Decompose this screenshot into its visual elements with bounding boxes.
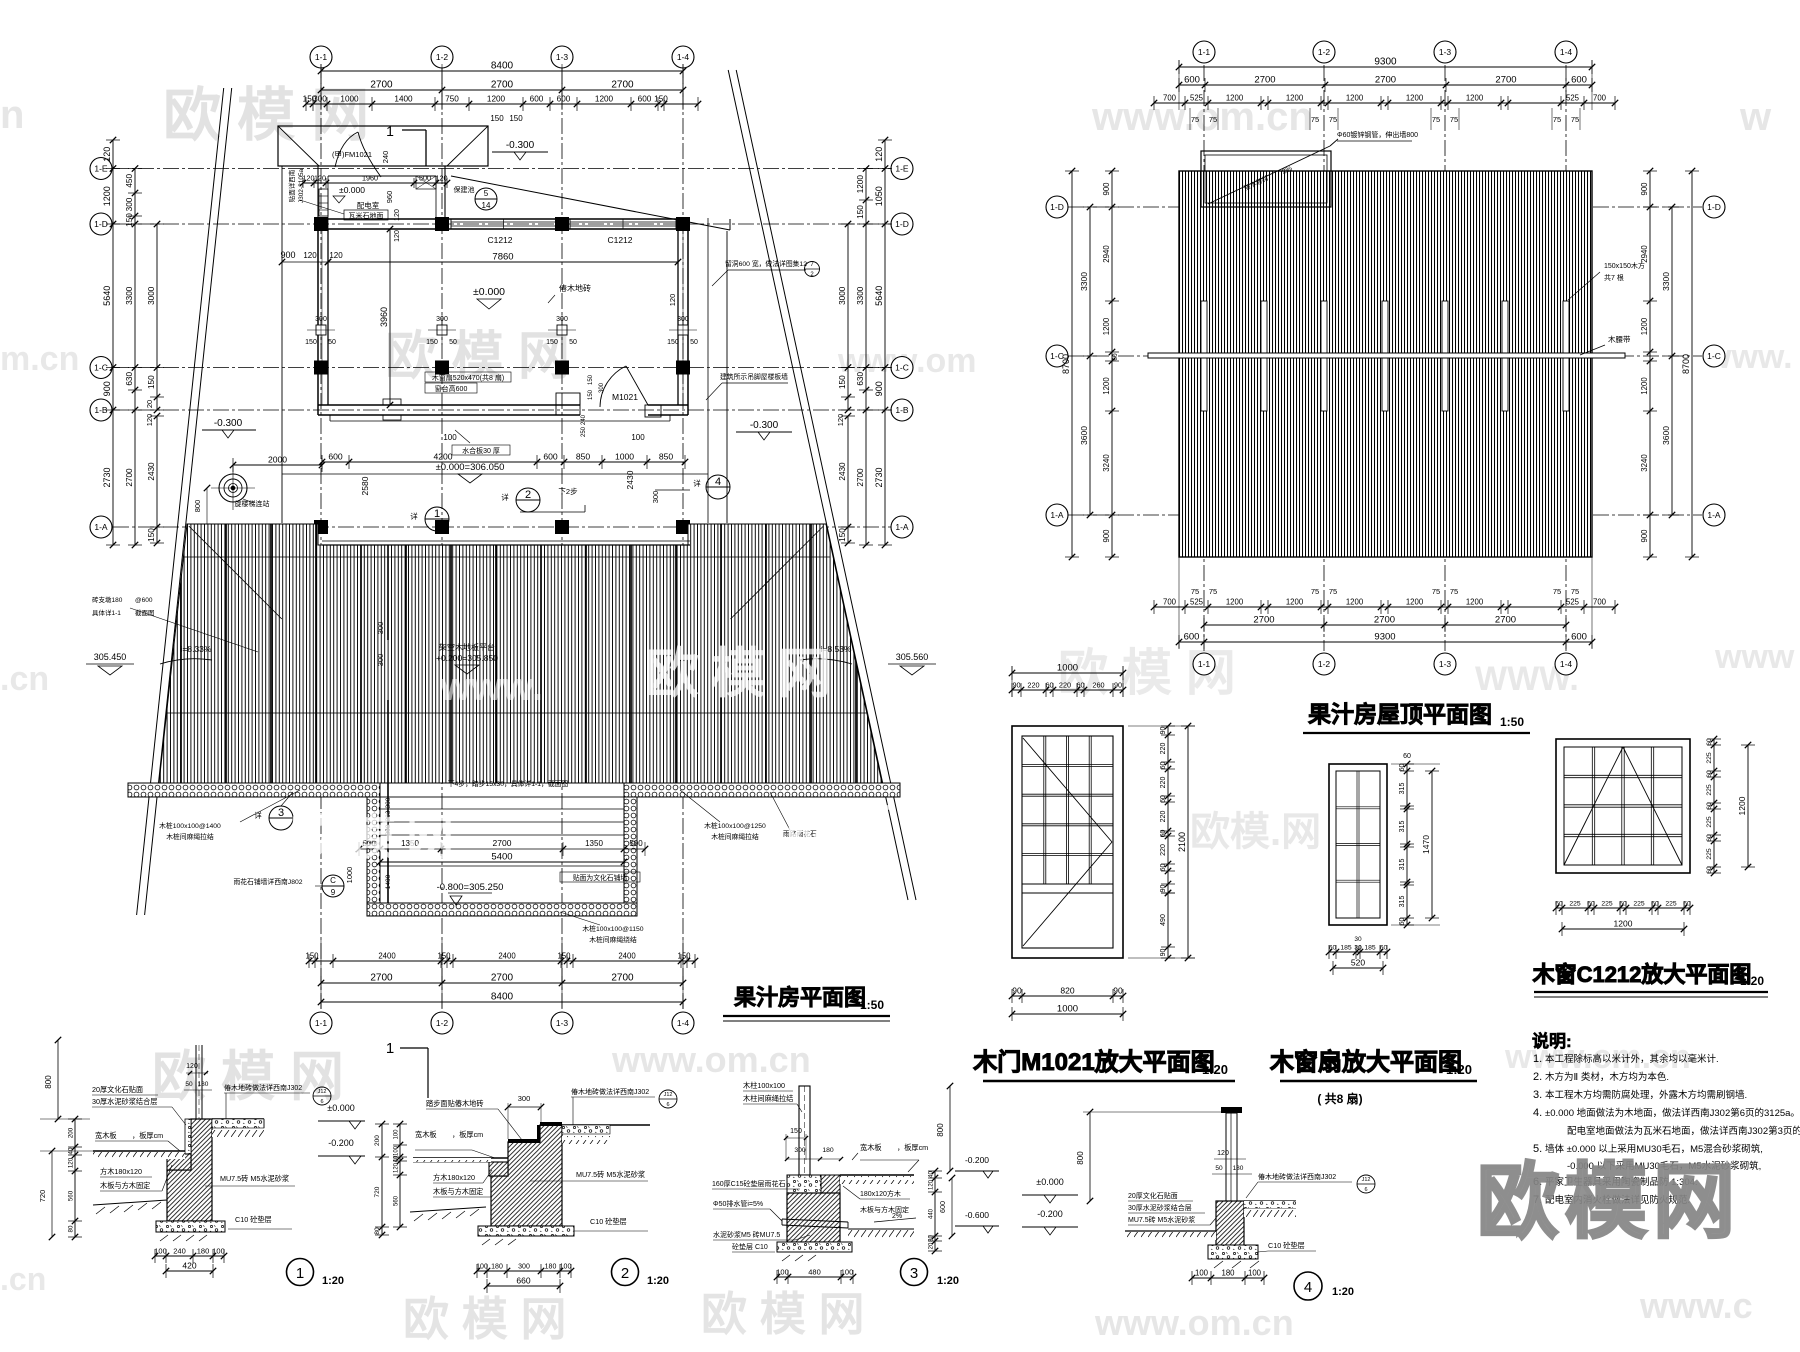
- svg-text:偆木地砖: 偆木地砖: [559, 283, 591, 293]
- svg-text:木柱间麻绳拉结: 木柱间麻绳拉结: [743, 1094, 793, 1103]
- svg-text:75: 75: [1329, 587, 1337, 596]
- svg-text:1000: 1000: [1057, 1004, 1078, 1015]
- svg-text:木窗扇放大平面图: 木窗扇放大平面图: [1269, 1048, 1462, 1076]
- svg-text:1200: 1200: [1466, 94, 1484, 103]
- svg-text:120: 120: [394, 1162, 400, 1173]
- svg-text:木腰带: 木腰带: [1608, 334, 1631, 344]
- svg-text:60: 60: [1160, 762, 1167, 770]
- svg-text:60: 60: [1403, 753, 1411, 760]
- svg-text:50: 50: [690, 339, 698, 346]
- svg-text:偆木地砖做法详西南J302: 偆木地砖做法详西南J302: [224, 1083, 302, 1092]
- svg-text:-0.200: -0.200: [1037, 1209, 1063, 1219]
- svg-text:木桩100x100@1400: 木桩100x100@1400: [159, 821, 221, 830]
- svg-text:1400: 1400: [385, 874, 392, 889]
- svg-text:440: 440: [929, 1208, 935, 1219]
- svg-text:500: 500: [629, 839, 643, 848]
- svg-text:1000: 1000: [615, 452, 634, 462]
- svg-text:1:20: 1:20: [1446, 1062, 1472, 1077]
- svg-text:1-1: 1-1: [315, 52, 328, 62]
- svg-text:详: 详: [410, 511, 418, 521]
- svg-text:2700: 2700: [611, 973, 634, 984]
- svg-text:300: 300: [599, 382, 605, 393]
- svg-text:600: 600: [543, 452, 558, 462]
- svg-text:150: 150: [838, 528, 847, 542]
- svg-text:525: 525: [1566, 598, 1580, 607]
- svg-text:120: 120: [1217, 1150, 1229, 1157]
- svg-text:14: 14: [482, 201, 491, 210]
- svg-text:9: 9: [331, 888, 336, 897]
- svg-text:1:20: 1:20: [647, 1275, 669, 1287]
- svg-text:720: 720: [38, 1190, 47, 1203]
- svg-text:2100: 2100: [1177, 832, 1187, 852]
- svg-text:150: 150: [856, 205, 865, 219]
- svg-text:100: 100: [394, 1145, 400, 1156]
- svg-text:木桩间麻绳拉结: 木桩间麻绳拉结: [711, 832, 759, 841]
- svg-text:150: 150: [305, 952, 319, 961]
- svg-text:7860: 7860: [492, 252, 513, 263]
- svg-text:www.: www.: [439, 665, 543, 709]
- svg-text:75: 75: [1553, 115, 1561, 124]
- svg-text:1-E: 1-E: [94, 164, 108, 174]
- svg-text:砖支墩180: 砖支墩180: [92, 595, 123, 604]
- svg-text:2430: 2430: [147, 462, 156, 481]
- svg-text:1.: 1.: [1533, 1053, 1542, 1065]
- svg-text:果汁房屋顶平面图: 果汁房屋顶平面图: [1308, 701, 1492, 727]
- svg-text:60: 60: [1706, 802, 1713, 810]
- svg-text:100: 100: [560, 1264, 572, 1271]
- svg-text:120: 120: [102, 147, 112, 162]
- svg-text:n: n: [0, 93, 24, 137]
- svg-text:4200: 4200: [433, 452, 452, 462]
- svg-text:-0.300: -0.300: [214, 418, 243, 429]
- svg-text:60: 60: [1399, 764, 1406, 772]
- svg-text:480: 480: [808, 1268, 821, 1277]
- svg-text:1-E: 1-E: [895, 164, 909, 174]
- svg-text:木窗C1212放大平面图: 木窗C1212放大平面图: [1532, 962, 1752, 987]
- svg-text:3600: 3600: [1661, 426, 1671, 445]
- svg-text:欧 模 网: 欧 模 网: [152, 1047, 344, 1107]
- svg-text:本工程除标高以米计外，其余均以毫米计.: 本工程除标高以米计外，其余均以毫米计.: [1545, 1053, 1719, 1065]
- svg-text:525: 525: [1190, 598, 1204, 607]
- svg-text:520: 520: [1351, 958, 1365, 968]
- svg-text:60: 60: [1380, 945, 1388, 952]
- svg-text:1200: 1200: [1406, 94, 1424, 103]
- svg-text:150: 150: [509, 114, 523, 123]
- svg-text:180: 180: [1221, 1269, 1235, 1278]
- svg-text:90: 90: [1012, 986, 1022, 996]
- svg-text:420: 420: [182, 1261, 196, 1271]
- svg-text:900: 900: [1102, 529, 1111, 543]
- svg-text:150: 150: [588, 374, 594, 385]
- svg-text:-0.800=305.250: -0.800=305.250: [437, 882, 504, 893]
- svg-text:±0.000: ±0.000: [339, 185, 365, 195]
- svg-text:225: 225: [1706, 784, 1713, 796]
- svg-text:1200: 1200: [1614, 919, 1633, 929]
- svg-text:1-3: 1-3: [1439, 659, 1452, 669]
- svg-text:1: 1: [386, 1040, 394, 1057]
- svg-text:欧模网: 欧模网: [1477, 1157, 1741, 1248]
- svg-text:水泥砂浆M5 砖MU7.5: 水泥砂浆M5 砖MU7.5: [713, 1230, 780, 1239]
- svg-text:800: 800: [193, 500, 202, 513]
- svg-text:120: 120: [836, 414, 845, 427]
- svg-text:120: 120: [303, 251, 317, 260]
- svg-text:20厚文化石贴面: 20厚文化石贴面: [92, 1085, 143, 1094]
- svg-text:525: 525: [1190, 94, 1204, 103]
- svg-text:1:20: 1:20: [322, 1275, 344, 1287]
- svg-text:600: 600: [1571, 75, 1587, 86]
- svg-text:3000: 3000: [838, 286, 847, 305]
- svg-text:M1021: M1021: [612, 392, 638, 402]
- svg-text:200: 200: [68, 1127, 75, 1138]
- svg-text:60: 60: [1706, 738, 1713, 746]
- svg-text:3240: 3240: [1102, 454, 1111, 472]
- svg-text:4: 4: [715, 476, 721, 488]
- svg-text:贴面为文化石铺墙: 贴面为文化石铺墙: [573, 873, 628, 882]
- svg-text:1-D: 1-D: [1050, 202, 1064, 212]
- svg-text:.cn: .cn: [0, 1261, 46, 1297]
- svg-text:30: 30: [1354, 936, 1362, 943]
- svg-text:1:20: 1:20: [937, 1275, 959, 1287]
- svg-text:150: 150: [437, 952, 451, 961]
- svg-text:2700: 2700: [1375, 75, 1396, 86]
- svg-text:720: 720: [374, 1186, 381, 1197]
- svg-text:3240: 3240: [1640, 454, 1649, 472]
- svg-text:630: 630: [856, 372, 865, 386]
- svg-text:600: 600: [328, 452, 343, 462]
- svg-text:J12: J12: [664, 1092, 673, 1098]
- svg-text:120: 120: [314, 174, 326, 183]
- svg-text:180: 180: [545, 1264, 557, 1271]
- svg-text:800: 800: [44, 1075, 53, 1089]
- svg-text:本工程木方均需防腐处理，外露木方均需刷钢墙.: 本工程木方均需防腐处理，外露木方均需刷钢墙.: [1545, 1089, 1747, 1101]
- svg-text:220: 220: [1160, 811, 1167, 823]
- svg-text:架空木地板平台: 架空木地板平台: [439, 642, 495, 652]
- svg-text:2000: 2000: [268, 455, 287, 465]
- svg-text:-0.300: -0.300: [750, 420, 779, 431]
- svg-text:2%: 2%: [892, 1213, 902, 1220]
- svg-text:C10 砼垫层: C10 砼垫层: [590, 1217, 627, 1226]
- svg-text:150: 150: [546, 339, 558, 346]
- svg-text:下2步: 下2步: [558, 487, 578, 496]
- svg-text:225: 225: [1601, 901, 1613, 908]
- svg-text:250: 250: [581, 426, 587, 437]
- svg-text:180x120方木: 180x120方木: [860, 1189, 901, 1198]
- svg-text:±0.000: ±0.000: [1036, 1177, 1063, 1187]
- svg-text:100: 100: [476, 1264, 488, 1271]
- svg-text:100: 100: [154, 1247, 167, 1256]
- svg-text:木桩100x100@1150: 木桩100x100@1150: [582, 924, 643, 933]
- svg-text:1-1: 1-1: [1198, 659, 1211, 669]
- svg-text:1200: 1200: [595, 95, 614, 104]
- svg-text:1200: 1200: [1102, 317, 1111, 335]
- svg-text:水合板30 厚: 水合板30 厚: [462, 446, 500, 455]
- svg-text:120: 120: [874, 147, 884, 162]
- svg-text:120: 120: [186, 1063, 198, 1070]
- svg-text:2400: 2400: [498, 952, 516, 961]
- svg-text:www: www: [1714, 638, 1795, 676]
- svg-text:2700: 2700: [1495, 75, 1516, 86]
- svg-text:3300: 3300: [856, 286, 865, 305]
- svg-text:2700: 2700: [370, 80, 393, 91]
- svg-text:20厚文化石贴面: 20厚文化石贴面: [1128, 1191, 1178, 1200]
- svg-text:±0.000: ±0.000: [473, 286, 505, 298]
- svg-text:宽木板: 宽木板: [95, 1131, 117, 1140]
- svg-text:150: 150: [838, 375, 847, 389]
- svg-text:具体详1-1: 具体详1-1: [92, 608, 121, 617]
- svg-text:240: 240: [381, 151, 390, 164]
- svg-text:315: 315: [1399, 896, 1406, 908]
- svg-text:1-C: 1-C: [1707, 351, 1721, 361]
- svg-text:2700: 2700: [370, 973, 393, 984]
- svg-text:150: 150: [588, 389, 594, 400]
- svg-text:C10 砼垫层: C10 砼垫层: [1268, 1241, 1305, 1250]
- svg-text:75: 75: [1311, 115, 1319, 124]
- svg-text:185: 185: [1364, 945, 1376, 952]
- svg-text:方木180x120: 方木180x120: [100, 1167, 142, 1176]
- svg-text:1000: 1000: [1057, 663, 1078, 674]
- svg-text:50: 50: [185, 1081, 193, 1088]
- svg-text:1000: 1000: [340, 95, 359, 104]
- svg-text:1200: 1200: [856, 175, 865, 194]
- svg-text:50: 50: [569, 339, 577, 346]
- svg-text:75: 75: [1571, 587, 1579, 596]
- svg-text:800: 800: [936, 1123, 945, 1137]
- svg-text:200: 200: [374, 1135, 381, 1146]
- svg-text:3.: 3.: [1533, 1089, 1542, 1101]
- svg-text:560: 560: [394, 1195, 400, 1206]
- svg-text:240: 240: [581, 414, 587, 425]
- svg-text:150: 150: [426, 339, 438, 346]
- svg-text:i=8.33%: i=8.33%: [181, 644, 212, 654]
- svg-text:150: 150: [147, 375, 156, 389]
- svg-text:60: 60: [1706, 866, 1713, 874]
- svg-text:2700: 2700: [1253, 615, 1274, 626]
- svg-text:墙体 ±0.000 以上采用MU30毛石，M5混合砂浆砌筑,: 墙体 ±0.000 以上采用MU30毛石，M5混合砂浆砌筑,: [1545, 1143, 1763, 1155]
- svg-text:+0.200=305.850: +0.200=305.850: [436, 653, 498, 663]
- svg-text:850: 850: [659, 452, 674, 462]
- svg-text:2400: 2400: [618, 952, 636, 961]
- svg-text:1200: 1200: [1226, 94, 1244, 103]
- svg-text:1: 1: [386, 123, 394, 139]
- svg-text:225: 225: [1633, 901, 1645, 908]
- svg-text:3000: 3000: [147, 286, 156, 305]
- svg-text:木桩间麻绳绕结: 木桩间麻绳绕结: [589, 935, 637, 944]
- svg-text:75: 75: [1311, 587, 1319, 596]
- svg-text:1200: 1200: [1640, 317, 1649, 335]
- svg-text:100: 100: [1195, 1269, 1209, 1278]
- svg-text:960: 960: [385, 191, 394, 204]
- svg-text:50: 50: [1215, 1165, 1223, 1172]
- svg-text:220: 220: [1160, 743, 1167, 755]
- svg-text:Φ60镀锌钢管，伸出墙800: Φ60镀锌钢管，伸出墙800: [1337, 130, 1418, 139]
- svg-text:欧模.网: 欧模.网: [1190, 810, 1321, 854]
- svg-text:30: 30: [1354, 945, 1362, 952]
- svg-text:1-2: 1-2: [1318, 659, 1331, 669]
- svg-text:50: 50: [449, 339, 457, 346]
- svg-text:下4步，踏步15x30，具体详1-1，截面图: 下4步，踏步15x30，具体详1-1，截面图: [448, 779, 569, 788]
- svg-text:80: 80: [68, 1225, 75, 1232]
- svg-text:120: 120: [929, 1179, 935, 1190]
- svg-text:1200: 1200: [1102, 377, 1111, 395]
- svg-text:共7 根: 共7 根: [1604, 273, 1624, 282]
- svg-text:30厚水泥砂浆结合层: 30厚水泥砂浆结合层: [1128, 1203, 1192, 1212]
- svg-text:600: 600: [1184, 75, 1200, 86]
- svg-text:，板厚cm: ，板厚cm: [132, 1131, 163, 1140]
- svg-text:1:50: 1:50: [860, 998, 884, 1012]
- svg-text:900: 900: [1102, 182, 1111, 196]
- svg-text:20: 20: [929, 1242, 935, 1249]
- svg-text:300: 300: [313, 95, 327, 104]
- svg-text:www.om.cn: www.om.cn: [1094, 1302, 1294, 1343]
- svg-text:1-3: 1-3: [556, 52, 569, 62]
- svg-text:1:50: 1:50: [1500, 715, 1524, 729]
- svg-text:欧 模 网: 欧 模 网: [403, 1293, 567, 1345]
- svg-text:( 共8 扇): ( 共8 扇): [1317, 1091, 1362, 1106]
- svg-text:120: 120: [436, 174, 448, 183]
- svg-text:60: 60: [1651, 901, 1659, 908]
- svg-text:2700: 2700: [491, 80, 514, 91]
- svg-text:600: 600: [557, 95, 571, 104]
- svg-text:.cn: .cn: [0, 660, 49, 698]
- svg-text:8700: 8700: [1681, 354, 1691, 374]
- svg-text:2: 2: [621, 1265, 629, 1282]
- svg-text:150: 150: [147, 528, 156, 542]
- svg-text:150: 150: [667, 339, 679, 346]
- svg-text:600: 600: [530, 95, 544, 104]
- svg-text:120: 120: [394, 230, 401, 242]
- svg-text:木桩100x100@1250: 木桩100x100@1250: [704, 821, 766, 830]
- svg-text:90: 90: [1160, 949, 1167, 957]
- svg-text:1-2: 1-2: [1318, 47, 1331, 57]
- svg-text:留洞600 宽，做法详图集12: 留洞600 宽，做法详图集12: [725, 259, 807, 268]
- svg-text:150: 150: [677, 952, 691, 961]
- svg-text:225: 225: [1665, 901, 1677, 908]
- svg-text:6: 6: [666, 1102, 669, 1108]
- svg-text:宽木板: 宽木板: [415, 1130, 437, 1139]
- svg-text:60: 60: [1160, 795, 1167, 803]
- svg-text:75: 75: [1191, 587, 1199, 596]
- svg-text:1:20: 1:20: [1202, 1062, 1228, 1077]
- svg-text:4: 4: [1304, 1279, 1312, 1296]
- svg-text:5640: 5640: [874, 286, 884, 306]
- svg-text:100: 100: [1248, 1269, 1262, 1278]
- svg-text:3960: 3960: [379, 307, 389, 327]
- svg-text:700: 700: [1593, 94, 1607, 103]
- svg-text:C1212: C1212: [487, 235, 512, 245]
- svg-text:1:20: 1:20: [1332, 1286, 1354, 1298]
- svg-text:±0.000: ±0.000: [327, 1103, 354, 1113]
- svg-text:180: 180: [198, 1081, 209, 1088]
- svg-text:详: 详: [501, 492, 509, 502]
- svg-text:1-1: 1-1: [315, 1018, 328, 1028]
- svg-text:40: 40: [68, 1147, 75, 1154]
- svg-text:Φ50排水管i=5%: Φ50排水管i=5%: [713, 1199, 763, 1208]
- svg-text:-0.600: -0.600: [965, 1210, 989, 1220]
- svg-text:1-4: 1-4: [1560, 47, 1573, 57]
- svg-text:90: 90: [1160, 727, 1167, 735]
- svg-text:1-A: 1-A: [1050, 510, 1064, 520]
- svg-text:5.: 5.: [1533, 1143, 1542, 1155]
- svg-text:60: 60: [1399, 918, 1406, 926]
- svg-text:180: 180: [1233, 1165, 1244, 1172]
- svg-text:偆木地砖做法详西南J302: 偆木地砖做法详西南J302: [571, 1087, 649, 1096]
- svg-text:1-1: 1-1: [1198, 47, 1211, 57]
- svg-text:1000: 1000: [345, 867, 354, 884]
- svg-text:240: 240: [173, 1247, 186, 1256]
- svg-text:3300: 3300: [1079, 272, 1089, 291]
- svg-text:窗台高600: 窗台高600: [435, 384, 468, 393]
- svg-text:J12: J12: [318, 1089, 327, 1095]
- svg-text:180: 180: [491, 1264, 503, 1271]
- svg-text:1-C: 1-C: [895, 363, 909, 373]
- svg-text:J12: J12: [1362, 1177, 1371, 1183]
- svg-text:6: 6: [320, 1099, 323, 1105]
- svg-text:100: 100: [443, 433, 457, 442]
- svg-text:1-B: 1-B: [94, 405, 108, 415]
- svg-text:700: 700: [1593, 598, 1607, 607]
- svg-text:2940: 2940: [1640, 245, 1649, 263]
- svg-text:1350: 1350: [585, 839, 603, 848]
- svg-text:900: 900: [1640, 182, 1649, 196]
- svg-text:详: 详: [693, 478, 701, 488]
- svg-text:300: 300: [518, 1264, 530, 1271]
- svg-text:2400: 2400: [378, 952, 396, 961]
- svg-text:300: 300: [385, 797, 392, 808]
- svg-text:1200: 1200: [1406, 598, 1424, 607]
- svg-text:1200: 1200: [1346, 94, 1364, 103]
- svg-text:20: 20: [145, 400, 154, 408]
- svg-text:1-4: 1-4: [677, 52, 690, 62]
- svg-text:560: 560: [68, 1190, 75, 1201]
- svg-text:600: 600: [1184, 632, 1200, 643]
- svg-text:8700: 8700: [1061, 354, 1071, 374]
- svg-text:185: 185: [1340, 945, 1352, 952]
- svg-text:木桩间麻绳拉结: 木桩间麻绳拉结: [166, 832, 214, 841]
- svg-text:315: 315: [1399, 859, 1406, 871]
- svg-text:900: 900: [1640, 529, 1649, 543]
- svg-text:120: 120: [668, 294, 677, 307]
- svg-text:1-B: 1-B: [895, 405, 909, 415]
- svg-text:490: 490: [1160, 914, 1167, 926]
- svg-text:2700: 2700: [611, 80, 634, 91]
- svg-text:150: 150: [125, 213, 134, 227]
- svg-text:75: 75: [1432, 587, 1440, 596]
- svg-text:木方为Ⅱ 类材，木方均为本色.: 木方为Ⅱ 类材，木方均为本色.: [1545, 1071, 1669, 1083]
- svg-text:500: 500: [419, 174, 431, 183]
- svg-text:700: 700: [1163, 598, 1177, 607]
- svg-text:旋楼梯连站: 旋楼梯连站: [235, 499, 270, 508]
- svg-text:踏步面贴偆木地砖: 踏步面贴偆木地砖: [426, 1099, 484, 1108]
- svg-text:，板厚cm: ，板厚cm: [897, 1143, 928, 1152]
- svg-text:1470: 1470: [1421, 835, 1431, 854]
- svg-text:贴面详西南: 贴面详西南: [287, 169, 296, 202]
- svg-text:150: 150: [557, 952, 571, 961]
- svg-text:150: 150: [790, 1128, 802, 1135]
- svg-text:1-A: 1-A: [94, 522, 108, 532]
- svg-text:1400: 1400: [394, 95, 413, 104]
- svg-text:欧模网: 欧模网: [645, 644, 843, 704]
- svg-text:300: 300: [651, 491, 660, 504]
- svg-text:5640: 5640: [102, 286, 112, 306]
- svg-text:1: 1: [434, 508, 440, 520]
- svg-text:1-D: 1-D: [895, 219, 909, 229]
- svg-text:1200: 1200: [1346, 598, 1364, 607]
- svg-text:2940: 2940: [1102, 245, 1111, 263]
- svg-text:详: 详: [254, 810, 262, 820]
- svg-text:60: 60: [1076, 681, 1084, 690]
- svg-text:80: 80: [374, 1227, 381, 1235]
- svg-text:450: 450: [125, 174, 134, 188]
